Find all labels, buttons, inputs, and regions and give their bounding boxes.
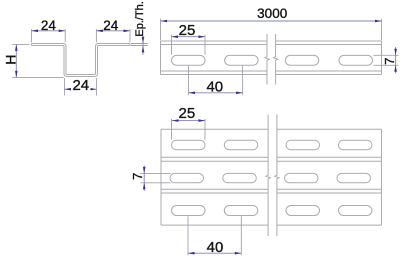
dimension 40 (slot pitch, front) [189, 92, 243, 94]
slot row1-4 flat view [338, 140, 372, 149]
extension lines for right 24 dim [95, 29, 97, 42]
extension lines for 7 dim flat [140, 172, 170, 174]
slot row2-2 flat view [223, 173, 256, 182]
extension lines for 7 dim front [374, 54, 399, 56]
break line left (flat view) [266, 115, 270, 237]
svg-text:7: 7 [130, 173, 145, 180]
profile cross-section sheet [32, 44, 131, 77]
slot 3 front view [285, 55, 319, 65]
break line right (front view) [273, 34, 277, 85]
slot row1-1 flat view [172, 140, 206, 149]
slot row3-4 flat view [338, 206, 372, 216]
extension lines for 25 dim front [171, 35, 173, 55]
slot row2-1 flat view [170, 173, 204, 182]
extension lines for 3000 dim [160, 19, 162, 40]
svg-text:40: 40 [206, 78, 223, 95]
slot 2 front view [225, 55, 259, 65]
extension lines for 25 dim flat [171, 119, 173, 140]
dim 7 flat arrows [143, 165, 145, 191]
thickness dim arrows [142, 36, 144, 55]
slot row2-3 flat view [285, 173, 319, 182]
slot row1-3 flat view [286, 140, 320, 149]
svg-text:3000: 3000 [257, 6, 287, 21]
slot row3-3 flat view [286, 206, 320, 216]
extension lines for H dim [12, 43, 29, 45]
extension lines for 40 dim flat [187, 216, 189, 255]
svg-text:7: 7 [382, 58, 397, 65]
slot row3-2 flat view [224, 206, 257, 216]
svg-text:40: 40 [207, 239, 224, 256]
slot 1 front view [172, 55, 206, 65]
svg-text:25: 25 [179, 22, 196, 39]
extension lines for 40 dim front [188, 66, 190, 95]
slot row1-2 flat view [224, 140, 257, 149]
dimension 25 (slot length, flat) [172, 120, 205, 122]
rail front view outline [161, 41, 382, 75]
svg-text:Ep./Th.: Ep./Th. [134, 1, 146, 36]
dimension 24 (bottom width) [65, 88, 97, 90]
svg-text:H: H [2, 55, 18, 65]
svg-text:24: 24 [103, 18, 119, 33]
white mask under bottom 24 label [71, 79, 91, 90]
break line right (flat view) [275, 115, 279, 237]
dimension H (profile height) [15, 44, 17, 77]
dimension 24 (left flange width) [32, 30, 66, 32]
slot 4 front view [339, 55, 373, 65]
svg-text:24: 24 [72, 77, 89, 94]
svg-text:25: 25 [179, 105, 196, 122]
slot row3-1 flat view [172, 206, 206, 216]
dimension 40 (slot pitch, flat) [188, 252, 241, 254]
dimension 3000 (rail length) [161, 20, 382, 22]
dim 7 front arrows [395, 47, 397, 74]
svg-text:24: 24 [41, 18, 57, 33]
dimension 25 (slot length, front) [172, 36, 206, 38]
dimension 24 (right flange width) [96, 30, 130, 32]
slot row2-4 flat view [337, 173, 371, 182]
extension lines for left 24 dim [31, 29, 33, 42]
extension lines for thickness dim [131, 43, 148, 45]
extension lines for bottom 24 dim [64, 78, 66, 96]
flat view outline [161, 129, 382, 225]
break line left (front view) [265, 34, 269, 85]
